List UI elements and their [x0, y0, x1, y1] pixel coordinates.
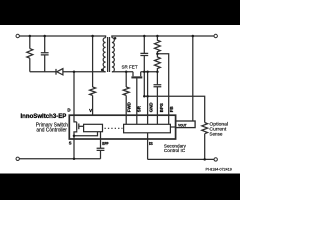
junction: S pin at rail: [73, 158, 76, 161]
resistor R V-pin: [90, 87, 96, 95]
transformer T1 primary winding: [103, 38, 105, 72]
wire: sense resistor bottom: [204, 134, 206, 160]
transformer T1 secondary winding: [112, 38, 114, 72]
output terminal top-right: [214, 34, 217, 37]
resistor R divider upper: [154, 36, 160, 54]
wire: VOUT stub: [170, 126, 175, 128]
svg-text:D: D: [67, 108, 70, 113]
capacitor C BPS: [154, 85, 162, 87]
svg-text:GND: GND: [149, 102, 154, 112]
wire: S pin: [73, 136, 75, 159]
capacitor C clamp: [41, 36, 49, 72]
svg-text:BPS: BPS: [159, 103, 164, 112]
top letterbox bar: [0, 0, 240, 25]
wire: sense line: [144, 96, 204, 122]
wire: BPS pin lower: [156, 87, 158, 125]
output terminal bottom-right: [214, 158, 217, 161]
junction: C out at 72: [143, 70, 146, 73]
bottom letterbox bar: [0, 174, 240, 201]
capacitor C out: [140, 53, 148, 55]
junction: divider tap: [156, 53, 159, 56]
wire: BPS cap upper: [156, 72, 158, 85]
svg-text:SR FET: SR FET: [122, 65, 138, 70]
wire: FET right to divider: [141, 71, 158, 73]
IC outer box InnoSwitch3-EP: [69, 115, 175, 139]
junction: drain node: [73, 70, 76, 73]
wire: diode anode to drain node: [63, 71, 106, 73]
junction: divider bottom: [156, 70, 159, 73]
svg-text:InnoSwitch3-EP: InnoSwitch3-EP: [21, 114, 67, 120]
junction: rail at clamp C: [43, 35, 46, 38]
wire: BPP cap bottom: [100, 150, 102, 158]
wire: primary bottom rail: [20, 158, 101, 160]
wire: BPP pin: [100, 132, 102, 149]
phase dot primary: [101, 69, 104, 72]
resistor R clamp: [27, 49, 33, 59]
junction: FET source inside IC: [73, 134, 76, 137]
wire: FWD pin upper: [125, 72, 127, 87]
wire: top-left rail: [20, 36, 106, 38]
resistor R sense: [202, 123, 208, 134]
SR FET transistor: [133, 72, 141, 77]
wire: V pin upper: [92, 36, 94, 87]
svg-text:Control IC: Control IC: [164, 148, 186, 154]
wire: clamp bottom: [30, 71, 56, 73]
wire: SR pin (gate): [136, 78, 138, 124]
junction: sense line at cap: [143, 95, 146, 98]
junction: rail at divider: [156, 35, 159, 38]
junction: rail at V line: [91, 35, 94, 38]
junction: rail at C out: [143, 35, 146, 38]
wire: FB tap: [157, 54, 168, 125]
input terminal top-left: [16, 34, 19, 37]
wire: source to controller block: [74, 132, 98, 136]
svg-text:V: V: [89, 108, 92, 113]
wire: IS pin: [147, 133, 149, 160]
primary FET gate lead: [79, 125, 84, 127]
svg-text:FWD: FWD: [127, 102, 132, 112]
wire: clamp resistor bottom stub: [29, 58, 31, 71]
primary FET source path: [74, 130, 77, 136]
junction: rail at VOUT line: [192, 35, 195, 38]
transformer core: [108, 37, 110, 72]
wire: D pin: [73, 72, 75, 116]
wire: output cap bottom: [143, 56, 145, 97]
phase dot secondary: [114, 37, 117, 40]
junction: GND line at 72: [146, 70, 149, 73]
wire: secondary bottom to SR FET: [112, 71, 133, 73]
wire: FWD pin lower: [125, 95, 127, 124]
resistor R divider lower: [154, 54, 160, 72]
wire: GND pin: [147, 72, 149, 125]
svg-text:VOUT: VOUT: [178, 123, 187, 128]
junction: sense R at rail: [203, 158, 206, 161]
diode D clamp: [55, 69, 57, 75]
wire: V pin lower: [92, 95, 94, 116]
primary FET drain lead: [74, 116, 77, 122]
svg-text:Sense: Sense: [209, 132, 222, 138]
svg-text:FB: FB: [169, 106, 174, 112]
dashed link primary-secondary: [105, 127, 123, 129]
junction: rail at clamp R: [29, 35, 32, 38]
wire: output cap top: [143, 36, 145, 53]
svg-text:Current: Current: [209, 126, 227, 132]
svg-text:S: S: [69, 141, 72, 146]
svg-text:IS: IS: [149, 141, 153, 146]
secondary controller inner box: [124, 124, 171, 133]
primary controller block: [84, 124, 103, 131]
input terminal bottom-left: [16, 157, 19, 160]
resistor R FWD: [123, 87, 129, 95]
primary FET channel: [76, 122, 78, 130]
primary FET gate bar: [78, 124, 80, 130]
svg-text:PI-8184-072419: PI-8184-072419: [206, 166, 233, 171]
wire: VOUT line: [192, 36, 194, 121]
wire: clamp resistor top stub: [29, 36, 31, 49]
junction: sense line at GND: [146, 95, 149, 98]
capacitor C BPP: [97, 148, 105, 150]
wire: secondary top to output rail: [112, 36, 214, 38]
svg-text:BPP: BPP: [102, 141, 108, 146]
VOUT pin box: [176, 121, 196, 128]
junction: FWD tap: [125, 70, 128, 73]
svg-text:SR: SR: [136, 105, 141, 112]
svg-text:and Controller: and Controller: [36, 127, 67, 133]
wire: secondary bottom rail: [148, 158, 214, 160]
